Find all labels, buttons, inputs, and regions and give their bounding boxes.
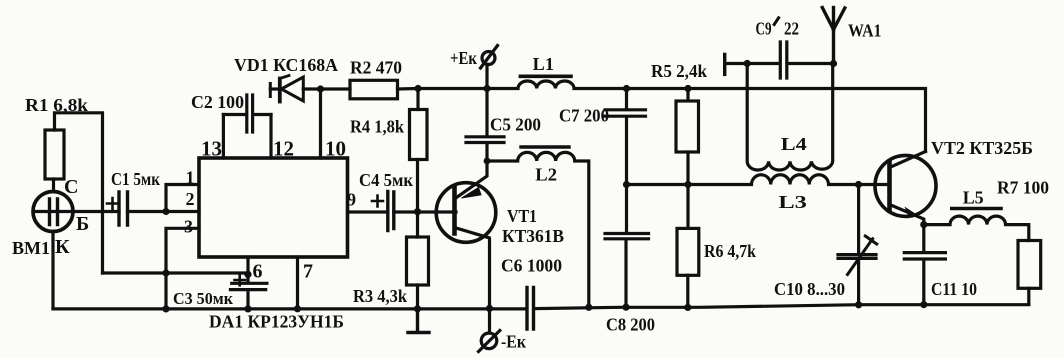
pin 6 stub	[246, 257, 249, 274]
svg-text:L5: L5	[963, 187, 984, 207]
junction R3 bottom on rail	[414, 305, 421, 312]
C9 asterisk tick	[774, 18, 778, 25]
capacitor C2	[223, 95, 271, 132]
svg-text:9: 9	[347, 190, 356, 210]
inductor L5	[924, 216, 1029, 240]
capacitor C6	[527, 288, 534, 330]
resistor R7	[1018, 241, 1041, 305]
terminal +Ek	[481, 46, 498, 89]
wire R1 top up right and down to pin6 rail	[55, 113, 103, 273]
microphone BM1	[33, 192, 73, 232]
capacitor C7	[605, 89, 646, 185]
wire diode to R2	[303, 87, 350, 90]
svg-text:10: 10	[325, 137, 346, 161]
junction R6 bottom on rail	[684, 304, 691, 311]
svg-text:2: 2	[186, 189, 195, 209]
junction C10 bottom on rail	[855, 301, 862, 308]
svg-text:3: 3	[184, 217, 193, 237]
junction pin3 riser on bottom rail	[162, 305, 169, 312]
inductor L4 loop	[747, 64, 833, 171]
svg-text:R5 2,4k: R5 2,4k	[651, 61, 707, 81]
capacitor C3 electrolytic	[230, 274, 267, 309]
bottom rail right of C6	[535, 305, 1029, 309]
svg-text:+Ек: +Ек	[450, 48, 478, 68]
inductor L2 and drop to bottom rail	[487, 152, 589, 307]
svg-text:Б: Б	[76, 213, 89, 235]
junction pin3 riser on y273 wire	[162, 269, 169, 276]
pin 7 riser	[296, 257, 299, 309]
junction +Ek on top rail	[483, 85, 490, 92]
svg-text:КТ361В: КТ361В	[502, 226, 564, 246]
svg-text:С4 5мк: С4 5мк	[359, 170, 414, 190]
junction pin 7 on rail	[294, 305, 301, 312]
svg-text:-Ек: -Ек	[501, 332, 527, 352]
svg-text:С: С	[64, 176, 78, 198]
svg-text:WA1: WA1	[848, 21, 882, 41]
junction C9 right / antenna line	[830, 60, 837, 67]
junction L2 tap on emitter line	[484, 158, 491, 165]
capacitor C4	[388, 192, 394, 231]
wire mic K down to bottom rail	[51, 232, 54, 309]
junction pin1 link on pin2 wire	[162, 208, 169, 215]
svg-text:С3 50мк: С3 50мк	[173, 289, 233, 308]
svg-text:22: 22	[784, 19, 799, 39]
variable capacitor C10	[838, 185, 877, 305]
middle rail with inductor L3	[627, 175, 890, 185]
svg-text:С8 200: С8 200	[606, 315, 655, 335]
pin 1 stub and link	[166, 185, 199, 212]
resistor R2	[350, 80, 398, 99]
svg-text:С7 200: С7 200	[559, 106, 609, 126]
top rail with inductor L1	[487, 81, 926, 152]
svg-text:С6 1000: С6 1000	[501, 256, 562, 276]
junction VT1 collector on bottom rail	[486, 305, 493, 312]
pin 9 stub	[348, 210, 388, 213]
svg-text:VD1 КС168А: VD1 КС168А	[234, 55, 338, 75]
terminal -Ek	[479, 308, 500, 351]
resistor R3	[407, 212, 429, 309]
capacitor C11	[904, 225, 945, 305]
wire C1 to pin 2	[128, 210, 200, 213]
capacitor C1	[119, 192, 128, 225]
svg-text:VT2 КТ325Б: VT2 КТ325Б	[931, 138, 1033, 158]
svg-text:L3: L3	[778, 192, 807, 212]
svg-text:12: 12	[273, 137, 294, 161]
antenna WA1	[822, 8, 845, 64]
wire R2 right to +Ek junction	[398, 87, 487, 91]
pin 13 riser	[222, 115, 225, 159]
svg-text:R6 4,7k: R6 4,7k	[704, 241, 756, 261]
pin 3 stub and riser down to bottom rail	[166, 228, 199, 309]
junction L2 drop on bottom rail	[585, 304, 592, 311]
L1 underline bar	[520, 75, 571, 79]
capacitor C5	[466, 89, 504, 162]
wire C4 to VT1 base	[394, 210, 456, 213]
junction R2/R4	[414, 85, 421, 92]
pin 12 riser	[269, 115, 272, 159]
op-amp IC DA1 KR123UN1B body	[199, 158, 348, 257]
resistor R5	[676, 89, 699, 185]
svg-text:С2 100: С2 100	[191, 92, 244, 112]
junction pin 6	[244, 271, 251, 278]
junction C9 left / L4 left leg	[744, 60, 751, 67]
wire y273 to pin 6 junction	[103, 271, 249, 274]
C1 plus sign	[107, 198, 118, 209]
wire mic B to C1	[73, 210, 120, 213]
junction C11 bottom on rail	[920, 301, 927, 308]
pin 10 riser	[319, 89, 322, 158]
svg-text:С5 200: С5 200	[490, 115, 541, 135]
svg-text:С11 10: С11 10	[931, 279, 977, 299]
junction C7/C8 on middle rail	[623, 181, 630, 188]
ground stub below R3	[408, 309, 429, 333]
resistor R4	[410, 89, 428, 212]
svg-text:1: 1	[186, 168, 195, 188]
svg-text:R7 100: R7 100	[997, 177, 1049, 197]
C4 plus sign	[372, 196, 383, 207]
bottom rail left of C6	[53, 307, 526, 310]
svg-text:L4: L4	[781, 134, 807, 154]
junction VT2 base / C10 on middle rail	[855, 181, 862, 188]
svg-text:DA1 КР123УН1Б: DA1 КР123УН1Б	[209, 312, 344, 332]
svg-text:С10 8...30: С10 8...30	[774, 279, 845, 299]
transistor VT1 KT361V	[436, 161, 496, 308]
svg-text:VT1: VT1	[507, 206, 537, 226]
svg-text:L1: L1	[533, 54, 554, 74]
svg-text:6: 6	[253, 261, 263, 283]
svg-text:R4 1,8k: R4 1,8k	[350, 117, 404, 137]
junction C4 wire with R4/R3 line	[414, 208, 421, 215]
wire mic C to R1 bottom	[52, 179, 55, 192]
svg-text:13: 13	[201, 137, 222, 161]
svg-text:R3 4,3k: R3 4,3k	[353, 286, 407, 306]
junction C7 line on top rail	[623, 85, 630, 92]
resistor R1	[45, 130, 64, 179]
C3 plus sign	[235, 275, 246, 286]
junction C8 bottom on rail	[622, 304, 629, 311]
junction R5/R6 on middle rail	[684, 181, 691, 188]
svg-text:L2: L2	[535, 165, 557, 185]
svg-text:К: К	[55, 236, 70, 258]
junction VT2 emitter node	[920, 221, 927, 228]
svg-text:ВМ1: ВМ1	[12, 238, 50, 258]
capacitor C8	[605, 185, 649, 308]
L2 core bar	[521, 145, 569, 148]
svg-text:С1 5мк: С1 5мк	[111, 169, 161, 189]
capacitor C9 with stub terminal	[725, 42, 834, 78]
transistor VT2 KT325B	[875, 152, 936, 225]
junction C3 bottom on rail	[244, 305, 251, 312]
svg-text:7: 7	[303, 261, 313, 283]
zener diode VD1 KS168A	[270, 76, 303, 102]
junction R5 line on top rail	[684, 85, 691, 92]
resistor R6	[677, 185, 699, 308]
svg-text:R2 470: R2 470	[350, 58, 402, 78]
L5 underline bar	[952, 207, 1001, 211]
svg-text:С9: С9	[756, 19, 772, 39]
junction pin 10 riser on diode wire	[317, 85, 324, 92]
